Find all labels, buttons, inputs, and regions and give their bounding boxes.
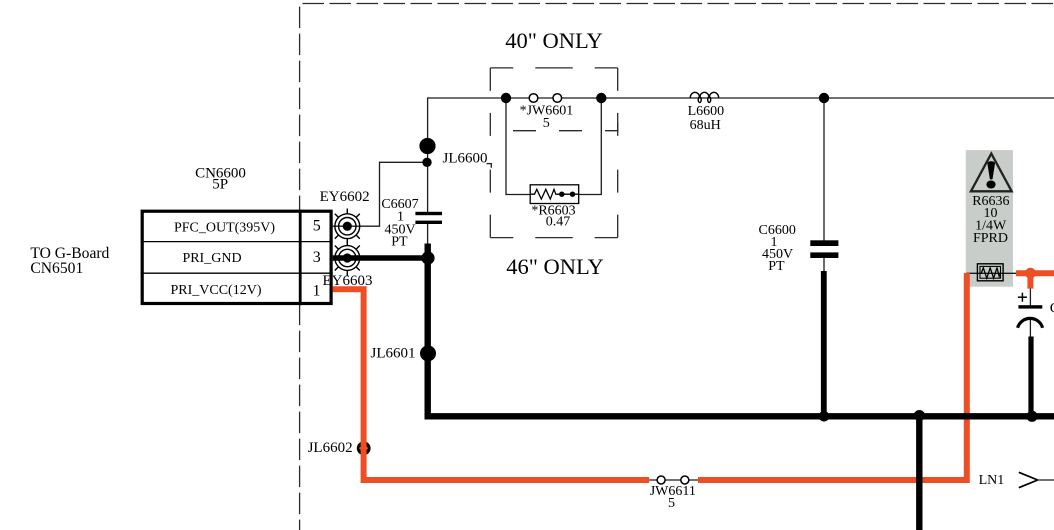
svg-text:5: 5: [543, 116, 550, 131]
svg-text:PRI_GND: PRI_GND: [182, 251, 241, 266]
svg-text:PT: PT: [768, 259, 785, 274]
svg-text:46" ONLY: 46" ONLY: [506, 254, 604, 279]
svg-text:3: 3: [313, 249, 321, 266]
svg-text:FPRD: FPRD: [973, 231, 1008, 246]
svg-text:L6600: L6600: [688, 104, 725, 119]
svg-text:PRI_VCC(12V): PRI_VCC(12V): [170, 283, 261, 298]
svg-text:5: 5: [313, 218, 321, 235]
svg-text:PFC_OUT(395V): PFC_OUT(395V): [174, 221, 275, 236]
svg-text:LN1: LN1: [979, 473, 1005, 488]
svg-text:5: 5: [668, 496, 675, 511]
svg-text:1: 1: [313, 283, 321, 300]
svg-text:C: C: [1050, 301, 1054, 317]
svg-text:CN6501: CN6501: [30, 260, 83, 277]
svg-text:JL6600: JL6600: [443, 150, 488, 166]
svg-text:JL6601: JL6601: [371, 346, 416, 362]
svg-text:5P: 5P: [212, 176, 228, 192]
svg-text:0.47: 0.47: [546, 215, 571, 230]
svg-text:40" ONLY: 40" ONLY: [505, 28, 603, 53]
svg-text:EY6602: EY6602: [320, 189, 370, 205]
svg-text:PT: PT: [391, 234, 408, 249]
svg-text:68uH: 68uH: [690, 118, 721, 133]
svg-text:EY6603: EY6603: [323, 273, 373, 289]
svg-text:JL6602: JL6602: [308, 440, 353, 456]
